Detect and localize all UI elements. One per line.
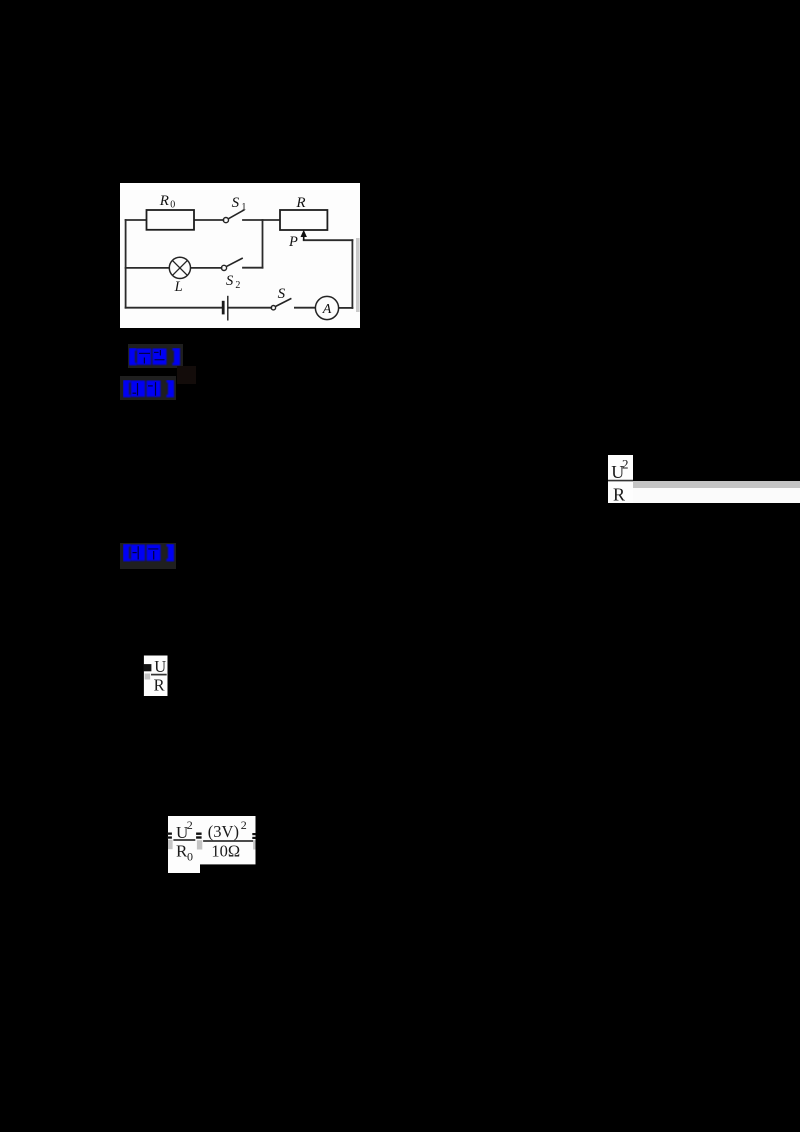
formula image 3: =U^2/R0=(3V)^2/10ohm=	[166, 815, 258, 873]
wire slider P to right vertical	[304, 239, 353, 241]
lamp L	[169, 257, 190, 278]
formula image 2: =U/R	[143, 655, 169, 697]
gray strip artifact right side	[356, 238, 360, 312]
switch S	[271, 298, 291, 310]
wire S to ammeter	[295, 307, 316, 309]
ammeter A	[315, 296, 338, 319]
wire R0 to S1	[194, 219, 223, 221]
wire S1 to R	[243, 219, 280, 221]
svg-text:R: R	[159, 193, 169, 209]
resistor R0	[147, 210, 195, 230]
switch S1	[223, 210, 244, 223]
svg-text:A: A	[322, 302, 332, 317]
svg-text:U: U	[154, 657, 166, 676]
svg-text:0: 0	[187, 850, 193, 864]
formula image 1: U^2/R with gray band	[608, 455, 633, 503]
svg-text:2: 2	[187, 818, 193, 832]
wire top left horizontal	[126, 219, 147, 221]
wire right vertical	[351, 240, 353, 308]
slider P arrow	[301, 230, 307, 240]
svg-text:(3V): (3V)	[208, 822, 239, 841]
wire battery to S	[229, 307, 272, 309]
svg-text:2: 2	[235, 280, 240, 291]
svg-text:R: R	[295, 195, 305, 211]
svg-text:P: P	[288, 234, 298, 250]
svg-text:L: L	[174, 279, 183, 295]
link label 3 (jieda) dark box	[120, 543, 176, 569]
switch S2	[221, 258, 242, 271]
circuit schematic image (white box)	[120, 183, 360, 328]
wire ammeter to right corner	[339, 307, 353, 309]
link label 3 blue text	[123, 544, 175, 562]
link label 2 (fenxi) dark box	[120, 376, 176, 400]
wire bottom left to battery	[126, 307, 222, 309]
node junction vertical wire	[262, 220, 264, 268]
wire lamp to S2	[191, 267, 222, 269]
svg-text:10Ω: 10Ω	[211, 842, 240, 861]
link label 2 blue text	[123, 380, 175, 398]
svg-text:1: 1	[241, 202, 246, 213]
wire junction to S2 contact	[243, 267, 263, 269]
svg-text:S: S	[226, 273, 234, 289]
svg-text:2: 2	[622, 456, 629, 471]
wire left to lamp	[126, 267, 170, 269]
svg-text:0: 0	[170, 199, 175, 210]
svg-text:R: R	[613, 484, 625, 503]
battery	[223, 296, 228, 321]
svg-text:2: 2	[241, 818, 247, 832]
faint artifact box	[177, 366, 196, 384]
svg-text:S: S	[278, 286, 286, 302]
link label 1 (kaodian) dark box	[128, 344, 183, 368]
svg-text:S: S	[232, 195, 240, 211]
wire left vertical	[125, 220, 127, 308]
rheostat R	[280, 210, 327, 230]
image background	[120, 183, 360, 328]
svg-text:R: R	[154, 676, 165, 695]
link label 1 blue text	[129, 348, 181, 366]
